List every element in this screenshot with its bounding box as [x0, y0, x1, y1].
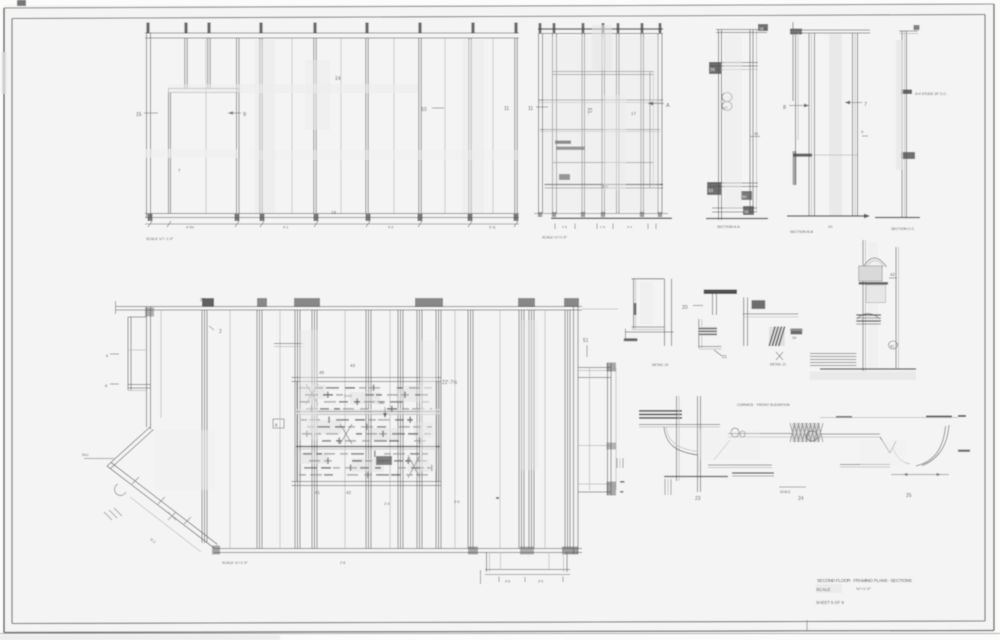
plan top edge [115, 306, 582, 308]
svg-text:42: 42 [890, 272, 896, 277]
bay wall inner a [111, 430, 154, 469]
elevation-2 joist end mark x660 [659, 23, 662, 33]
elevation-1 smear band a [255, 40, 275, 213]
elevation-1 top plate [145, 32, 519, 34]
elevation-1 joist end mark x261 [259, 23, 262, 34]
plan joist cluster x398 [397, 310, 399, 549]
svg-text:23: 23 [695, 496, 701, 502]
detail-1 smear [640, 282, 653, 324]
section-5 left vertical b [697, 396, 699, 492]
elevation-2 sill block x660 [658, 212, 662, 217]
svg-text:9: 9 [243, 112, 246, 118]
bay tick t1 [132, 477, 139, 484]
svg-text:30: 30 [742, 194, 747, 199]
detail-4 molding stack [856, 314, 881, 316]
svg-text:33: 33 [708, 188, 714, 193]
detail-3 cap block [752, 300, 766, 309]
elevation-1 post x367 [365, 38, 367, 213]
svg-text:SECTION B-B: SECTION B-B [790, 230, 814, 234]
elevation-1 dim tick x316 [314, 221, 318, 227]
label tick plan-left a [110, 353, 119, 355]
block cross brace a [306, 384, 318, 404]
section-5 lower rail b [840, 464, 890, 466]
detail-1 left edge [633, 279, 635, 329]
detail-3 left edge [743, 297, 745, 346]
elevation-1 sill block x262 [260, 214, 265, 221]
detail-4 base smear [810, 372, 916, 381]
svg-text:3′-6: 3′-6 [454, 500, 460, 504]
svg-text:SECTION C-C: SECTION C-C [891, 227, 915, 231]
svg-text:EL.: EL. [586, 108, 592, 116]
mullion-T stem [712, 294, 714, 315]
elevation-1 sill block x368 [366, 214, 371, 221]
plan joist light x161 [160, 310, 162, 418]
bay hatch marks [104, 512, 112, 520]
elevation-1 post x315 [313, 38, 315, 213]
block cross brace c [408, 455, 420, 478]
svg-text:1′-9: 1′-9 [600, 225, 605, 229]
label 31 tick [750, 136, 760, 138]
block right edge [436, 382, 438, 482]
detail-2 left edge [698, 319, 700, 348]
detail-3 hatch block [769, 327, 785, 346]
plan joist head mark x415 [415, 298, 443, 307]
elevation-1 dim tick x420 [418, 221, 422, 227]
elevation-1 dim tick x169 [167, 221, 171, 227]
elevation-1 post x420 [418, 38, 420, 213]
plan joist head mark x202 [202, 298, 214, 307]
plan joist cluster x202 [201, 310, 203, 543]
svg-text:3'-11: 3'-11 [489, 226, 496, 230]
inner border bottom [12, 621, 985, 624]
elevation-2 stud pair 0 [538, 34, 540, 214]
elevation-1 infill stud x341 [340, 38, 342, 213]
block bottom boundary [292, 481, 442, 483]
elevation-2 bottom plate dark [551, 217, 672, 219]
svg-text:7: 7 [864, 102, 867, 108]
plan right bay top lines [578, 367, 611, 369]
elevation-2 joist end mark x603 [602, 23, 605, 33]
plan porch bottom [485, 569, 570, 571]
section-1 right studs [749, 30, 751, 212]
elevation-1 joist end mark x315 [313, 23, 316, 34]
detail-4 left vertical [862, 240, 864, 371]
svg-text:15: 15 [136, 112, 142, 118]
elevation-2 interior wash [544, 36, 660, 211]
svg-text:3′-0: 3′-0 [538, 580, 543, 584]
svg-text:SECOND FLOOR · FRAMING PLANS ·: SECOND FLOOR · FRAMING PLANS · SECTIONS [817, 578, 912, 583]
detail-4 smear band [868, 242, 878, 370]
bay wall inner b [111, 463, 218, 545]
svg-text:¾″=1′-0″: ¾″=1′-0″ [856, 586, 872, 591]
svg-text:2×12: 2×12 [344, 394, 352, 398]
plan chimney bottom lines [128, 384, 150, 386]
window dark sash bar b [556, 147, 585, 150]
elevation-1 dim tick x368 [366, 221, 370, 227]
section-5 leader diagonal [714, 440, 730, 460]
elevation-1 dim tick x150 [148, 221, 152, 227]
elevation-1 sill block x150 [148, 214, 153, 221]
section-2 blocking dash [793, 154, 812, 157]
elevation-1 joist end mark x367 [365, 23, 368, 34]
window dark sash bar c [559, 174, 570, 180]
detail-4 arch inner [867, 261, 885, 268]
plan joist head mark x257 [257, 298, 267, 307]
plan smear a [300, 330, 318, 440]
svg-text:DETAIL 21: DETAIL 21 [770, 363, 786, 367]
elevation-2 bottom sill [534, 213, 668, 215]
svg-text:11: 11 [504, 106, 509, 112]
elevation-1 sill block x237 [235, 214, 240, 221]
detail-1 dark bar [624, 338, 638, 341]
section-5 crosshatch block [792, 423, 820, 442]
section-5 left rail [639, 424, 720, 426]
elevation-1 dim tick x237 [235, 221, 239, 227]
section-5 mid rails [728, 433, 794, 435]
label 30 block [741, 191, 752, 200]
section-5 rosette a [731, 428, 739, 437]
plan porch left edge [486, 552, 488, 572]
section-1 base line [706, 218, 768, 220]
plan smear c [520, 320, 538, 470]
elevation-1 door left jamb [168, 89, 170, 214]
svg-text:21: 21 [722, 354, 728, 359]
detail-3 x mark [776, 352, 783, 360]
svg-text:36: 36 [379, 400, 385, 405]
title smudge [816, 584, 842, 593]
detail-4 base molding stripes [810, 353, 856, 355]
window dark sash bar a [555, 141, 571, 144]
section-5 lower rail dark [732, 472, 774, 474]
section-5 left beam stack [639, 410, 682, 412]
section-3 note leader [901, 90, 912, 95]
elevation-2 dimension ticks [554, 224, 556, 230]
elevation-2 mid smear [604, 95, 626, 190]
plan joist cluster x468 [467, 310, 469, 549]
plan porch dim ticks [498, 577, 500, 583]
section-2 stud pair b [808, 33, 810, 216]
block cross brace b [340, 424, 352, 444]
svg-text:22′-7½: 22′-7½ [442, 379, 458, 386]
elevation-1 post x261 [259, 38, 261, 213]
elevation-1 post x516 [514, 38, 516, 213]
svg-text:2′-6: 2′-6 [562, 225, 567, 229]
plan right bay knot mid [607, 443, 617, 450]
bay tick t2 [158, 497, 165, 504]
detail-1 right edge [664, 279, 666, 346]
elevation-1 post x186 [184, 38, 186, 88]
svg-text:2′-8: 2′-8 [340, 561, 345, 565]
elevation-1 bottom sill [145, 213, 519, 215]
section-5 right cove [916, 426, 946, 466]
detail-4 base dark line [820, 368, 916, 370]
elevation-2 sill block x540 [538, 212, 542, 217]
elevation-1 infill stud x292 [291, 38, 293, 213]
top-left corner blob [17, 0, 26, 6]
plan right bay knot top [607, 363, 617, 372]
elevation-2 stud pair 3 [601, 34, 603, 214]
detail-4 right vertical [895, 247, 897, 368]
bay extra diagonal [130, 497, 201, 552]
elevation-1 door right jamb [236, 38, 238, 213]
plan joist cluster x312 [311, 310, 313, 549]
label 33 block [707, 182, 721, 195]
detail-3 rails [743, 313, 799, 315]
svg-text:19: 19 [331, 210, 337, 215]
plan joist light x545 [544, 310, 546, 549]
plan right bay inner line [589, 368, 591, 490]
svg-text:20: 20 [682, 305, 688, 311]
section-3 smear [896, 40, 903, 170]
section-5 left cove [664, 427, 698, 455]
plan joist head mark x294 [294, 298, 320, 307]
elevation-2 sill block x583 [581, 212, 585, 217]
section-5 bottom dark left [664, 476, 728, 478]
plan left wall [146, 307, 148, 428]
section-2 smear band [829, 34, 842, 216]
section-5 left lower vertical [697, 455, 699, 473]
plan right bay knot bottom [607, 482, 617, 496]
elevation-1 infill stud x493 [492, 38, 494, 213]
plan joist cluster x529 [528, 310, 530, 549]
svg-text:43: 43 [350, 363, 356, 368]
plan porch right edge [563, 552, 565, 572]
svg-text:4'-0½: 4'-0½ [186, 226, 194, 230]
plan chimney top [128, 316, 147, 318]
plan short header [274, 343, 303, 345]
section-5 small mark right [958, 450, 970, 452]
svg-text:8: 8 [783, 105, 786, 111]
plan joist head mark x564 [564, 298, 579, 307]
inner border right [984, 15, 986, 622]
detail-1 base line [625, 331, 674, 333]
section-5 top light line [820, 417, 958, 419]
svg-text:24: 24 [798, 496, 804, 502]
plan chimney left wall [127, 317, 129, 390]
block dark patch [376, 456, 392, 465]
section-5 circle on hatch [807, 431, 818, 441]
svg-text:42: 42 [346, 490, 352, 495]
svg-text:4′-6: 4′-6 [505, 580, 510, 584]
label 36 block [709, 62, 721, 74]
elevation-2 sill block x603 [601, 212, 605, 217]
plan joist cluster x366 [365, 310, 367, 549]
elevation-2 stud pair 2 [581, 34, 583, 214]
window rail 3 [540, 129, 660, 131]
elevation-1 post x470 [468, 38, 470, 213]
section-5 post base ticks [664, 479, 666, 495]
block mid rail [296, 446, 440, 448]
section-2 stud pair c [852, 33, 854, 216]
svg-text:2: 2 [219, 329, 222, 335]
plan smear d [155, 430, 215, 490]
label 18 block [758, 24, 768, 31]
elevation-1 dim tick x262 [260, 221, 264, 227]
elevation-1 left end stud [146, 33, 148, 218]
label 41 detail [889, 341, 898, 349]
svg-text:40: 40 [319, 370, 325, 375]
window rail 2 full width [538, 99, 663, 101]
section-1 smear [724, 35, 742, 210]
elevation-2 top plate [538, 28, 663, 30]
elevation-1 joist end mark x186 [184, 23, 187, 34]
section-3 base line [875, 217, 920, 219]
plan joist light x455 [454, 310, 456, 549]
plan bottom edge [214, 548, 582, 550]
bay corner arc [115, 484, 126, 495]
window sill rail [545, 184, 664, 186]
section-1 girt band [709, 62, 758, 64]
elevation-1 joist end mark x148 [146, 23, 149, 34]
section-3 top cap [899, 30, 918, 32]
section-5 smear a [700, 430, 760, 460]
plan joist head mark x518 [518, 298, 535, 307]
elevation-2 stud pair 1 [552, 34, 554, 214]
section-2 left stud dark foot [793, 151, 797, 185]
plan joist light x500 [499, 310, 501, 549]
window sill dot [601, 184, 608, 189]
section-5 smear b [860, 440, 905, 465]
elevation-2 sill block x642 [640, 212, 644, 217]
svg-text:SHEET 5 OF 9: SHEET 5 OF 9 [816, 600, 845, 605]
svg-text:2×4 STUDS 16″ O.C.: 2×4 STUDS 16″ O.C. [915, 92, 947, 96]
elevation-2 joist end mark x554 [553, 23, 556, 33]
svg-text:SCALE: SCALE [816, 587, 830, 592]
bay wall outer a [107, 427, 150, 466]
bottom margin smudge [0, 635, 280, 640]
elevation-1 dim tick x470 [468, 221, 472, 227]
detail-4 molding arc [857, 314, 880, 320]
section-5 lower rail a [708, 464, 772, 466]
elevation-1 dimension line [145, 223, 519, 225]
plan joist cluster x436 [435, 310, 437, 549]
section-1 lower band [712, 207, 757, 209]
inner border top [12, 15, 985, 19]
elevation-1 infill stud x394 [393, 38, 395, 213]
plan joist light x390 [389, 310, 391, 549]
elevation-2 top smear [592, 25, 612, 70]
detail-4 lower block [866, 285, 886, 303]
elevation-1 infill stud x445 [444, 38, 446, 213]
bay wall outer b [107, 466, 214, 548]
svg-text:2′-0: 2′-0 [384, 502, 390, 506]
svg-text:SECTION A-A: SECTION A-A [717, 225, 740, 229]
elevation-1 smear band e [305, 60, 330, 130]
plan joist light x230 [229, 310, 231, 549]
elevation-1 dim tick x516 [514, 221, 518, 227]
svg-text:10: 10 [421, 107, 427, 113]
elevation-2 joist end mark x642 [641, 23, 644, 33]
border tick bottom [806, 620, 808, 631]
elevation-1 sill block x420 [418, 214, 423, 221]
detail-4 capital block [859, 266, 883, 281]
plan right bay mid line [578, 445, 611, 447]
bottom trim line [0, 633, 1000, 635]
elevation-1 sill block x516 [514, 214, 519, 221]
svg-text:18: 18 [759, 26, 764, 31]
section-5 top dark segments [836, 416, 852, 418]
outer border right [993, 4, 995, 631]
plan right bay bottom lines [578, 483, 611, 485]
section-5 left small dashes [620, 481, 625, 483]
plan joist cluster x417 [416, 310, 418, 549]
elevation-2 sill block x554 [552, 212, 556, 217]
elevation-1 smear band c [168, 84, 418, 93]
section-5 left vertical a [676, 396, 678, 481]
svg-text:36: 36 [710, 67, 716, 72]
section-3 mid block [901, 152, 915, 159]
svg-text:A: A [666, 103, 670, 109]
mullion-T bar [704, 290, 737, 295]
svg-text:SCALE ¼″= 1′-0″: SCALE ¼″= 1′-0″ [146, 237, 174, 241]
svg-text:3′-2: 3′-2 [627, 225, 632, 229]
window head rail [553, 71, 655, 73]
bay tick t3 [184, 517, 191, 524]
plan porch inner stud [500, 552, 502, 570]
block wash patches [302, 385, 326, 399]
elevation-1 sill block x470 [468, 214, 473, 221]
section-1 sill band [709, 182, 758, 184]
detail-2 base [699, 346, 722, 348]
detail-3 right tick [790, 329, 804, 331]
left border smudge [2, 52, 7, 94]
section-5 left small marks [616, 458, 618, 468]
plan corner knot [145, 308, 154, 317]
label 38 block [743, 206, 754, 215]
plan right wall [573, 307, 575, 555]
plan bottom edge knots [468, 547, 478, 555]
plan right bay right edge [607, 363, 609, 495]
bay cross mark [168, 512, 176, 520]
window right frame [649, 72, 651, 189]
section-2 left stud lines [792, 22, 794, 101]
plan joist cluster x257 [256, 310, 258, 549]
section-2 top plate [790, 29, 870, 31]
svg-text:SCALE ¼″=1′-0″: SCALE ¼″=1′-0″ [222, 561, 248, 565]
svg-text:SILL: SILL [82, 453, 89, 457]
svg-text:24: 24 [792, 336, 796, 340]
detail-3 dark dash [791, 329, 803, 335]
svg-text:1½: 1½ [828, 225, 833, 229]
section-5 bottom arrowed line [891, 474, 949, 476]
detail-2 hatch block [699, 327, 717, 337]
plan smear b [420, 340, 436, 470]
block top boundary [292, 377, 442, 379]
section-1 left studs [718, 30, 720, 221]
elevation-2 stud pair 4 [616, 34, 618, 214]
bay leader with note [84, 458, 114, 460]
block left edge [296, 382, 298, 482]
elevation-1 joist end mark x209 [207, 23, 210, 34]
section-5 mid V profile [880, 437, 890, 453]
label tick plan-left b [110, 383, 119, 385]
elevation-2 stud pair 5 [640, 34, 642, 214]
inner border left [11, 19, 13, 624]
elevation-1 post x209 [207, 38, 209, 88]
elevation-1 joist end mark x473 [471, 23, 474, 34]
detail-1 bottom line [632, 326, 665, 328]
elevation-2 stud pair 6 [657, 34, 659, 214]
plan chimney mid line [128, 349, 147, 351]
svg-text:4'-1: 4'-1 [283, 226, 288, 230]
plan joist cluster x565 [564, 310, 566, 549]
section-1 top plate [716, 29, 767, 31]
plan joist cluster x519 [518, 310, 520, 549]
plan joist cluster x295 [294, 310, 296, 549]
elevation-1 smear band d [146, 149, 238, 158]
elevation-1 smear band f [250, 150, 520, 160]
svg-text:11: 11 [528, 106, 533, 112]
